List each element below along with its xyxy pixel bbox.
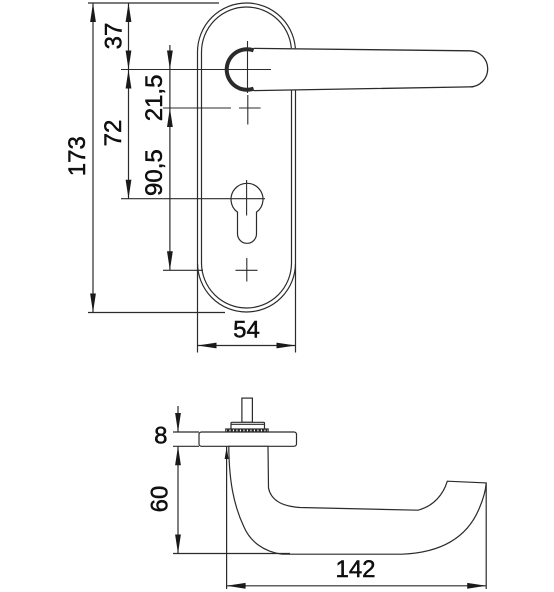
svg-text:173: 173 — [64, 136, 91, 176]
arrow 90,5 bottom (down) — [167, 251, 173, 270]
cylinder centerline horizontal — [121, 198, 265, 200]
arrow 60 top (up) — [175, 446, 181, 465]
svg-text:37: 37 — [101, 23, 128, 50]
neck collar — [231, 422, 265, 429]
dimension line 60 — [177, 446, 179, 553]
arrow 60 bottom (down) — [175, 535, 181, 554]
lever boss thick arc — [227, 49, 254, 90]
grip side profile — [229, 446, 486, 554]
extension line bottom (173) — [88, 312, 225, 314]
lower screw cross vertical — [246, 258, 248, 282]
upper screw cross vertical — [247, 95, 249, 125]
arrow 54 left — [198, 343, 217, 349]
rose plate side view — [199, 432, 297, 446]
dimension line 142 — [227, 585, 487, 587]
arrow 21,5 bottom / 90,5 top (up, below line) — [167, 108, 173, 127]
serrated bearing band — [226, 429, 268, 432]
arrow 37 bottom (down) — [126, 51, 132, 70]
small arrow on neck extension — [226, 447, 228, 590]
dimension texts — [64, 23, 376, 583]
spindle — [242, 398, 253, 422]
dimension line 37/72 — [128, 3, 130, 199]
arrowheads — [90, 3, 486, 589]
svg-text:90,5: 90,5 — [141, 149, 168, 196]
svg-text:142: 142 — [335, 556, 375, 583]
dim 54 extension left — [197, 264, 199, 353]
lower screw cross extension — [163, 269, 203, 271]
svg-text:72: 72 — [100, 120, 127, 147]
arrow 72 top (up) — [126, 70, 132, 89]
dim 54 extension right — [295, 264, 297, 353]
collar inner line — [232, 423, 265, 425]
cylinder centerline vertical — [246, 180, 248, 216]
arrow 21,5 top (down, outside above) — [167, 51, 173, 70]
svg-text:21,5: 21,5 — [141, 75, 168, 122]
svg-text:54: 54 — [233, 317, 260, 344]
dimension line 54 — [198, 345, 296, 347]
upper screw cross extension — [163, 107, 231, 109]
lever bar outline — [254, 48, 488, 90]
dim 8 extension lower — [173, 445, 199, 447]
svg-text:60: 60 — [146, 486, 173, 513]
plate inner outline — [202, 7, 292, 308]
serration dashes — [227, 429, 267, 431]
plate outer outline (front view stadium) — [198, 3, 296, 312]
dimension line 173 — [92, 3, 94, 313]
dim 60 extension bottom — [173, 553, 290, 555]
lever bar fill — [247, 48, 488, 92]
arrow 8 top (down, outside above) — [175, 413, 181, 432]
arrow 72 bottom (down) — [126, 180, 132, 199]
arrow neck small (up) — [225, 447, 229, 459]
arrow 142 right — [467, 583, 486, 589]
euro cylinder keyhole — [231, 183, 263, 243]
extension line top (173) — [88, 2, 219, 4]
arrow 142 left — [227, 583, 246, 589]
arrow 54 right — [277, 343, 296, 349]
dimension line 8/60 upper — [177, 406, 179, 432]
upper screw cross horizontal — [239, 107, 261, 109]
handle centerline vertical — [247, 41, 249, 93]
arrow 173 bottom (down) — [90, 294, 96, 313]
handle centerline horizontal — [121, 69, 271, 71]
dim 142 extension right — [485, 484, 487, 590]
svg-text:8: 8 — [154, 423, 167, 450]
arrow 37 top (up) — [126, 3, 132, 22]
lower screw cross horizontal — [236, 269, 258, 271]
dim 8 extension upper — [173, 431, 199, 433]
dimension line 21,5/90,5 — [169, 45, 171, 270]
arrow 173 top (up) — [90, 3, 96, 22]
